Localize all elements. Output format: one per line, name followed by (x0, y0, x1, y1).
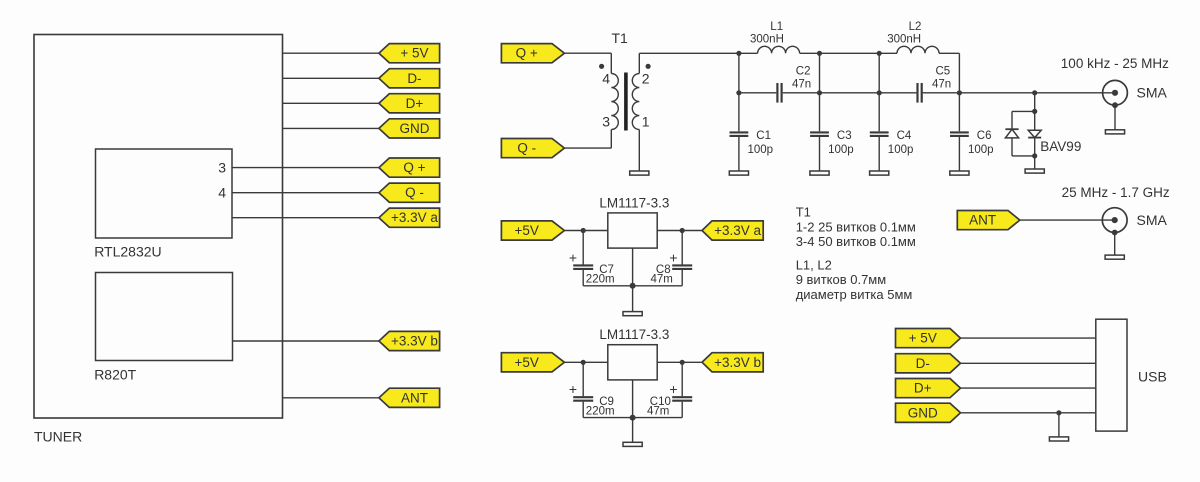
svg-text:+: + (669, 249, 677, 265)
svg-text:T1: T1 (796, 205, 811, 220)
svg-text:C2: C2 (796, 66, 811, 78)
svg-text:+5V: +5V (514, 355, 538, 370)
svg-text:TUNER: TUNER (34, 428, 82, 444)
svg-text:C3: C3 (837, 130, 852, 142)
svg-text:L1, L2: L1, L2 (796, 257, 832, 272)
svg-text:4: 4 (602, 71, 610, 87)
svg-text:GND: GND (908, 405, 938, 420)
svg-text:+: + (669, 381, 677, 397)
svg-text:D+: D+ (914, 381, 932, 396)
svg-text:3: 3 (602, 114, 610, 130)
svg-text:+3.3V b: +3.3V b (391, 334, 438, 349)
svg-text:Q -: Q - (517, 141, 536, 156)
svg-text:L1: L1 (770, 21, 783, 33)
svg-text:25 MHz - 1.7 GHz: 25 MHz - 1.7 GHz (1062, 185, 1170, 200)
svg-text:+: + (569, 381, 577, 397)
svg-text:BAV99: BAV99 (1040, 139, 1081, 154)
svg-text:+3.3V a: +3.3V a (714, 223, 761, 238)
svg-text:диаметр витка 5мм: диаметр витка 5мм (796, 287, 913, 302)
svg-text:+ 5V: + 5V (909, 331, 937, 346)
svg-text:Q -: Q - (405, 185, 424, 200)
svg-text:+ 5V: + 5V (400, 46, 428, 61)
svg-text:D+: D+ (406, 96, 424, 111)
svg-text:1: 1 (642, 114, 650, 130)
svg-text:2: 2 (642, 71, 650, 87)
svg-text:RTL2832U: RTL2832U (94, 244, 161, 260)
svg-text:100p: 100p (888, 144, 914, 156)
svg-text:L2: L2 (909, 21, 922, 33)
svg-text:R820T: R820T (94, 367, 136, 383)
svg-text:220m: 220m (586, 274, 615, 286)
svg-text:47m: 47m (651, 274, 673, 286)
svg-text:1-2 25 витков 0.1мм: 1-2 25 витков 0.1мм (796, 219, 916, 234)
svg-text:100p: 100p (748, 144, 774, 156)
svg-text:+: + (569, 249, 577, 265)
svg-text:9 витков 0.7мм: 9 витков 0.7мм (796, 272, 887, 287)
svg-text:+3.3V a: +3.3V a (391, 210, 438, 225)
svg-text:C6: C6 (977, 130, 992, 142)
svg-text:SMA: SMA (1137, 212, 1168, 228)
svg-text:C5: C5 (936, 66, 951, 78)
svg-text:220m: 220m (586, 406, 615, 418)
svg-text:GND: GND (399, 121, 429, 136)
svg-text:LM1117-3.3: LM1117-3.3 (599, 195, 669, 210)
svg-text:3: 3 (218, 160, 226, 176)
svg-text:Q +: Q + (403, 160, 425, 175)
svg-text:ANT: ANT (969, 213, 996, 228)
svg-text:47n: 47n (932, 79, 951, 91)
svg-text:+5V: +5V (514, 223, 538, 238)
svg-text:100p: 100p (968, 144, 994, 156)
svg-text:T1: T1 (612, 30, 629, 46)
svg-text:100 kHz - 25 MHz: 100 kHz - 25 MHz (1061, 56, 1169, 71)
svg-text:LM1117-3.3: LM1117-3.3 (599, 327, 669, 342)
svg-text:4: 4 (218, 185, 226, 201)
svg-text:D-: D- (916, 356, 930, 371)
svg-text:ANT: ANT (401, 390, 428, 405)
svg-text:Q +: Q + (516, 46, 538, 61)
svg-text:3-4 50 витков 0.1мм: 3-4 50 витков 0.1мм (796, 234, 916, 249)
svg-text:SMA: SMA (1137, 85, 1168, 101)
svg-text:300nH: 300nH (887, 34, 921, 46)
svg-text:47m: 47m (647, 406, 669, 418)
svg-text:USB: USB (1138, 368, 1167, 384)
svg-text:+3.3V b: +3.3V b (714, 355, 761, 370)
svg-text:100p: 100p (828, 144, 854, 156)
svg-text:C1: C1 (756, 130, 771, 142)
svg-text:D-: D- (407, 71, 421, 86)
svg-text:C4: C4 (897, 130, 912, 142)
svg-text:47n: 47n (792, 79, 811, 91)
svg-text:300nH: 300nH (750, 34, 784, 46)
